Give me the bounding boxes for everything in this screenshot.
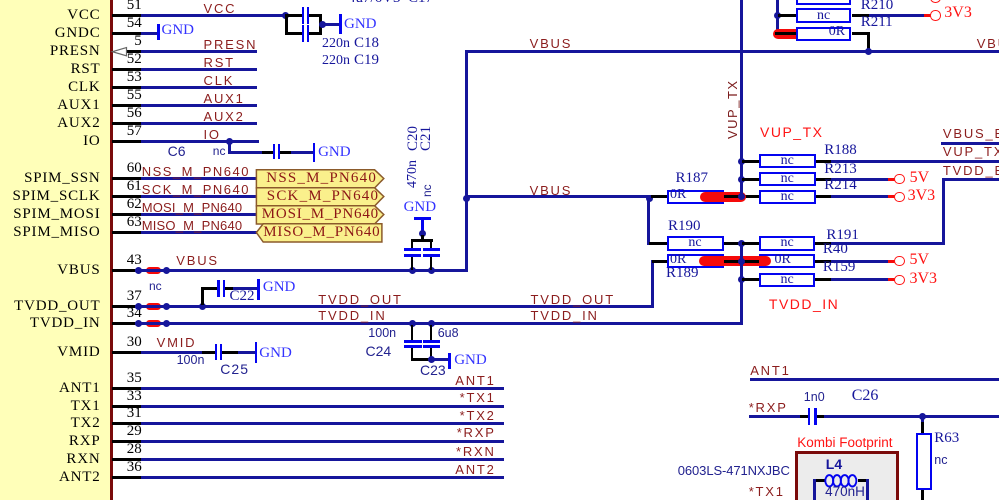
node junction (pin 34 right) [163,320,170,327]
pin number 61 [127,179,142,194]
resistor R213 (nc) [759,172,816,187]
designator R188 [824,143,857,158]
resistor text 0R (R40) [775,253,791,267]
pin name VMID [57,345,100,360]
net label MISO_M_PN640 [142,219,243,232]
designator R40 [823,242,848,257]
net label NSS_M_PN640 [142,165,250,178]
pin 55 stub [112,104,141,107]
wire RXP [141,440,505,443]
capacitor C25 plates [215,344,217,360]
fitted jumper red mark (R189-R40) [699,256,771,266]
pin number 33 [127,389,142,404]
pin 62 stub [112,213,141,216]
resistor text 0R (R189) [670,253,686,267]
net label VBUS_E (right edge, cut) [977,37,999,50]
net label TVDD_IN (right) [531,309,599,322]
wire (black) C20 top stub [411,241,414,248]
wire (black) R159 left stub [742,278,759,281]
ground bar (C18/C19) [339,14,342,35]
net label VUP_TX (vertical) [726,79,739,139]
capacitor C6 plates [273,144,275,159]
pin number 5 [134,34,142,49]
net name VUP_TX (red callout) [760,125,823,139]
wire (black) R190 left stub [649,242,667,245]
wire (black) R190 right stub [724,242,742,245]
pin number 54 [127,16,142,31]
resistor R190 (nc) [667,236,724,251]
wire (red) R159 to 3V3 [888,278,895,281]
wire R210 to 3V3 [869,14,925,17]
power text 3V3 (R159) [910,271,938,287]
wire (black) before C26 [800,415,808,418]
net label IO [204,128,221,141]
wire (black) C24/C23 bottom join [411,358,433,361]
wire R63 top stub [921,415,924,422]
wire (black) C21 top stub [430,241,433,248]
wire (black) C23 top stub [430,325,433,340]
node junction R187 input [646,195,653,202]
net label AUX2 [204,110,245,123]
ground bar (C22) [257,279,260,300]
pin name RXN [66,452,100,467]
wire to GND (C6) [291,151,313,154]
resistor R40 (0R) [759,254,815,269]
wire (black) R214 left stub [742,195,759,198]
wire R213 to 5V [831,178,888,181]
designator C19 [354,53,379,68]
ground bar (C6) [313,143,316,162]
wire (black) after C6 [280,151,291,154]
port text NSS_M_PN640 [266,171,377,186]
net label TVDD_OUT (left) [318,293,402,306]
wire (black) before C25 [202,351,214,354]
net label VBUS (top) [530,37,573,50]
pin 30 stub [112,351,141,354]
net label VBUS (pin 43) [176,254,219,267]
wire (black) R187 left stub [651,195,667,198]
wire VBUS pin run [135,269,468,272]
resistor text 0R (R187) [670,188,686,202]
net name TVDD_IN (red callout) [769,297,839,311]
wire GNDC to ground [141,32,158,35]
wire (black) R187 right stub [724,195,742,198]
capacitor C20 plates (horizontal) [404,248,421,251]
value label 220n (C19) [322,54,350,68]
wire (black) R63 bottom stub [921,490,924,500]
wire (black) fork horizontal [411,239,433,242]
node junction C20 on VBUS [409,267,416,274]
node junction C21 on VBUS [428,267,435,274]
capacitor C21 plates (horizontal) [423,248,440,251]
capacitor C19 plates [302,25,304,42]
wire (black) VCC loop left vertical [285,14,288,35]
wire VBUS vertical riser [465,50,468,272]
pin name PRESN [50,44,101,59]
wire (black) R40 left stub [742,260,759,263]
net label ANT2 [455,463,495,476]
ground text GND (C23/C24) [454,353,487,368]
ground text GND (C22) [263,280,296,295]
wire (red) R210 to 3V3 [924,14,931,17]
wire L4 left vertical [813,479,816,500]
wire (black) VCC loop bottom-right segment [309,32,322,35]
power port circle 5V (cut, top edge) [930,0,940,3]
wire (black) C22 horizontal to cap [201,287,218,290]
pin number 60 [127,161,142,176]
wire (black) C24 bottom stub [411,348,414,360]
designator R189 [666,266,699,281]
pin number 28 [127,442,142,457]
wire TVDD_OUT riser to R189 [651,260,654,308]
resistor text 0R (R211) [829,25,845,39]
node junction R189/R40 row [738,258,745,265]
wire RST [141,68,258,71]
wire to GND (C22) [233,287,257,290]
value 6u8 (C23) [438,327,459,340]
power port circle 3V3 (R159) [894,275,904,285]
wire VCC pin to cap loop [141,14,287,17]
ground bar (C23/C24) [448,353,451,369]
net label VMID [157,336,197,349]
net label CLK [204,74,235,87]
wire (black) R210 right stub [852,14,869,17]
pin number 55 [127,88,142,103]
pin number 29 [127,424,142,439]
pin 60 stub [112,177,141,180]
wire AUX1 [141,104,258,107]
net label ANT1 [455,374,495,387]
pin 37 stub [112,305,137,308]
resistor R187 (0R) [667,190,724,205]
power port circle 3V3 (R214) [894,192,904,202]
node junction C22 branch [199,303,206,310]
pin 43 stub [112,269,137,272]
ground stem (C20/C21) [421,220,424,233]
pin name SPIM_SCLK [12,189,100,204]
wire (black) R211 left stub [775,32,796,35]
pin 5 stub (after PRESN triangle) [126,50,141,53]
net label *RXP (bottom right) [749,401,788,414]
net label TVDD_IN (left) [318,309,386,322]
power text 5V fragment (top edge) [940,0,960,3]
port text SCK_M_PN640 [267,189,379,204]
wire SPIM_SCLK [141,195,257,198]
designator C21 (rotated) [419,126,434,151]
port NSS_M_PN640 [255,168,386,243]
pin name ANT2 [59,470,101,485]
node junction R159 row [738,276,745,283]
wire (black) R191 left stub [742,242,759,245]
designator R210 [861,0,894,13]
pin 5 PRESN input triangle [110,45,130,59]
wire R159 to 3V3 [831,278,888,281]
power port circle 5V (R40) [894,256,904,266]
wire TVDD_E vertical drop [942,178,945,245]
Kombi Footprint label [797,436,892,450]
net label VCC [204,2,237,15]
capacitor C24 plates (horizontal) [404,340,422,343]
pin number 35 [127,371,142,386]
net label *RXP [457,426,496,439]
pin 53 stub [112,86,141,89]
node junction R213 row [738,176,745,183]
pin 51 stub [112,14,141,17]
wire (black) VCC loop bottom-left segment [285,32,302,35]
wire (black) R214 right stub [816,195,831,198]
resistor R211 (0R) [796,27,852,42]
power port circle 3V3 (R210) [930,10,940,20]
wire VBUS top horizontal to right edge [465,50,999,53]
wire VBUS_E stub (right edge) [941,142,999,145]
power port circle 5V (R213) [894,174,904,184]
wire ANT2 [141,476,505,479]
node junction (pin 37 left) [135,303,142,310]
node junction at loop right mid [319,21,326,28]
net label VBUS (mid, on wire to R187) [530,184,573,197]
wire TVDD_OUT pin run [135,305,653,308]
fragment text 4u7/6V3 C17 (cut at top) [348,0,433,6]
wire VBUS to R187 [465,195,651,198]
nc jumper red mark (pin 43) [146,267,161,274]
value 100n (C25) [177,354,205,367]
designator C22 [230,289,255,304]
wire center vertical segment (over red) [740,254,743,268]
pin name TVDD_IN [30,316,101,331]
net label *TX1 [460,391,496,404]
wire (red) R213 to 5V [888,178,895,181]
power text 3V3 (R210) [944,5,972,21]
designator R159 [823,260,856,275]
pin number 30 [127,335,142,350]
wire C6 riser [228,140,231,154]
wire to GND (C18/C19) [322,23,339,26]
node junction C24 on TVDD_IN [409,320,416,327]
pin name IO [83,134,100,149]
wire ANT1 (bottom right) [750,378,999,381]
wire (black) R63 top stub [921,422,924,433]
wire (black) R188 left stub [742,160,759,163]
wire VUP_TX vertical [740,0,743,198]
node junction (pin 43 left) [135,267,142,274]
node junction (pin 43 right) [163,267,170,274]
wire L4 right vertical [866,479,869,500]
pin name VBUS [57,263,100,278]
designator R63 [934,431,959,446]
designator C26 [852,388,879,404]
pin name VCC [67,8,100,23]
node junction on IO [226,138,233,145]
power text 5V (R40) [910,252,930,268]
wire PRESN [141,50,258,53]
wire AUX2 [141,122,258,125]
wire C6 horizontal [228,151,262,154]
wire (black) R189 left stub [652,260,667,263]
wire TX1 [141,405,505,408]
wire R40 to 5V [831,260,888,263]
pin name AUX1 [57,98,100,113]
capacitor C23 plates (horizontal) [423,340,441,343]
wire to GND (C23/C24) [431,358,448,361]
pin 52 stub [112,68,141,71]
pin name TX2 [71,416,101,431]
wire TVDD_IN pin run [135,322,743,325]
wire (black) R189 right stub [724,260,742,263]
designator L4 (bold) [826,457,842,471]
pin number 36 [127,460,142,475]
wire TVDD_E horizontal (right edge) [942,178,999,181]
net label AUX1 [204,92,245,105]
designator R211 [861,15,893,30]
pin 28 stub [112,458,141,461]
pin number 43 [127,253,142,268]
node junction on VCC [282,12,289,19]
resistor bank top box (cut at top edge) [796,0,852,5]
designator R187 [676,171,709,186]
designator R191 [826,228,859,243]
pin 57 stub [112,140,141,143]
wire (black) R213 left stub [742,178,759,181]
pin number 57 [127,124,142,139]
net label RST [204,56,235,69]
wire RXN [141,458,505,461]
node junction R187/R214 (red overlapped) [738,193,745,200]
wire (black) C21 bottom stub [430,257,433,270]
power text 3V3 (R214) [908,188,936,204]
resistor R214 (nc) [759,190,816,205]
wire left vertical (top-right bank) [776,0,779,35]
wire (black) after C25 [222,351,238,354]
pin number 56 [127,106,142,121]
pin number 37 [127,289,142,304]
ground bar (C20/C21, horizontal) [414,217,431,220]
resistor R63 (vertical, nc) [916,433,932,490]
designator C20 (rotated) [406,126,421,151]
port text MISO_M_PN640 [263,225,380,240]
IC body right border [110,0,113,500]
pin name ANT1 [59,381,101,396]
node junction R190/R191 row [738,240,745,247]
wire (black) fork stem [421,235,424,240]
wire SPIM_MISO [141,231,257,234]
pin number 52 [127,52,142,67]
pin 61 stub [112,195,141,198]
pin name GNDC [55,26,101,41]
wire (black) L4 left lead [813,479,825,482]
pin number 53 [127,70,142,85]
wire SPIM_SSN [141,177,257,180]
capacitor C22 plates [217,280,219,297]
wire (black) VCC loop top-right segment [309,14,322,17]
pin 63 stub [112,231,141,234]
part number 0603LS-471NXJBC (L4) [678,464,790,477]
net label VUP_TX (right edge) [943,145,999,158]
ground text GND (C18/C19) [344,17,377,32]
node junction (C20/C21 gnd fork) [419,230,426,237]
ground bar (GNDC) [157,24,160,40]
node junction VBUS/R187 branch [463,195,470,202]
wire (black) R40 right stub [815,260,831,263]
wire ANT1 [141,387,505,390]
pin 29 stub [112,440,141,443]
net label TVDD_E (right edge) [943,164,999,177]
resistor R188 (nc) [759,154,816,169]
wire (black) R211 right stub [852,32,871,35]
pin 36 stub [112,476,141,479]
node junction (pin 37 right) [163,303,170,310]
pin 33 stub [112,405,141,408]
wire (black) after C22 [225,287,233,290]
wire (black) C20 bottom stub [411,257,414,270]
node junction R214 row [738,193,745,200]
pin name SPIM_SSN [24,171,100,186]
wire (black) before C6 [262,151,273,154]
designator R214 [824,178,857,193]
wire (black) R210 left stub [778,14,796,17]
resistor R189 (0R) [667,254,724,269]
wire (black) R189 right stub (over red) [724,260,742,263]
wire (black) C24 top stub [411,325,414,340]
net label PRESN [204,38,258,51]
capacitor C20/C21 top ground: ground text GND [404,200,437,215]
node junction (pin 34 left) [135,320,142,327]
value label 220n (C18) [322,37,350,51]
wire CLK [141,86,258,89]
wire (black) C23 bottom stub [430,348,433,360]
wire C26 output to right edge [824,415,999,418]
pin name AUX2 [57,116,100,131]
port text MOSI_M_PN640 [262,207,379,222]
pin name TVDD_OUT [14,299,100,314]
ground text GND (GNDC) [162,23,195,38]
capacitor C18 plates [302,7,304,24]
pin 56 stub [112,122,141,125]
wire R214 to 3V3 [831,195,888,198]
net label MOSI_M_PN640 [142,201,243,214]
pin 34 stub [112,322,137,325]
resistor R210 (nc) [796,8,852,23]
wire (black) VCC loop top-left segment [285,14,302,17]
capacitor C26 plates [808,408,811,424]
resistor R191 (nc) [759,236,815,251]
value nc (R63) [934,454,947,467]
wire VUP vertical segment (over red) [740,190,743,197]
wire SPIM_MOSI [141,213,257,216]
value nc (C6) [213,145,226,157]
wire (black) after C26 [817,415,824,418]
pin number 51 [127,0,142,13]
net label TVDD_OUT (right) [531,293,615,306]
node junction C23 on TVDD_IN [428,320,435,327]
pin name SPIM_MISO [13,225,100,240]
wire (black) VCC loop right vertical [319,14,322,35]
wire (black) R188 right stub [816,160,831,163]
wire (black) C22 riser [201,287,204,305]
designator C24 [366,344,392,358]
value nc (C21, rotated) [421,184,433,197]
designator R213 [824,162,857,177]
wire R191 output to TVDD_E drop [831,242,945,245]
fitted jumper red mark (R211) [773,29,818,39]
designator C18 [354,36,379,51]
pin name RXP [69,434,101,449]
fitted jumper red mark (R187) [700,192,747,202]
net label VBUS_E (right edge) [943,127,999,140]
inductor L4 coil [822,472,862,490]
pin name TX1 [71,399,101,414]
ground text GND (C25) [259,346,292,361]
designator C25 [220,362,249,376]
